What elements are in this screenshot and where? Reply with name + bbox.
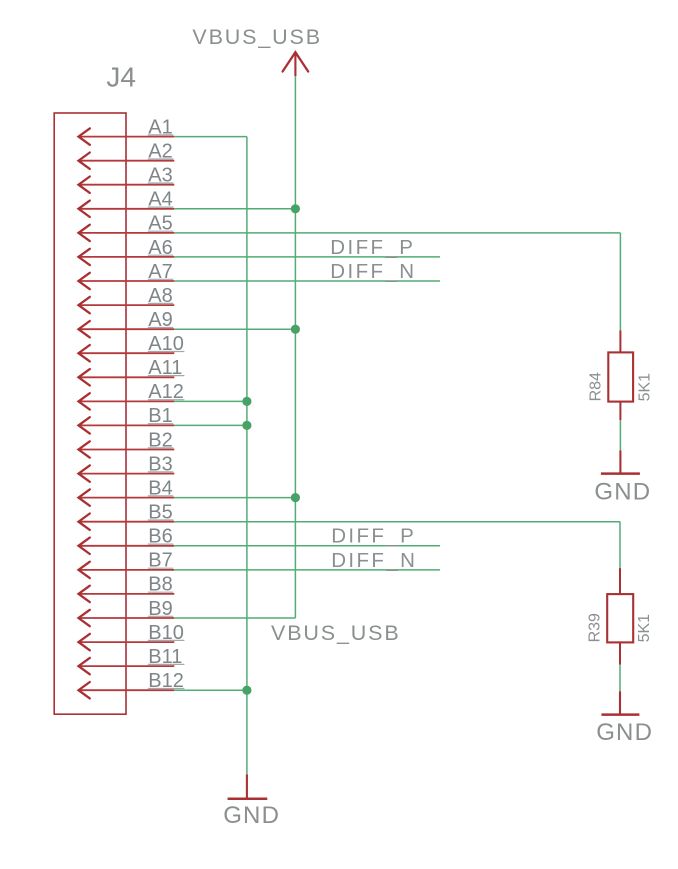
wire R84 to GND <box>619 420 621 450</box>
pin A6 arrowhead <box>79 249 90 265</box>
pin B2 arrowhead <box>79 441 90 457</box>
pin B2 line <box>79 449 175 451</box>
pin B8 line <box>79 593 175 595</box>
svg-text:GND: GND <box>594 479 651 506</box>
ground symbol GND3 stub <box>246 774 248 798</box>
pin A10 line <box>79 352 175 354</box>
pin A2 label underline <box>148 158 174 160</box>
pin A7 line <box>79 280 175 282</box>
wire net from pin A1 <box>174 136 247 138</box>
pin A9 arrowhead <box>79 321 90 337</box>
wire net from pin A12 <box>174 400 247 402</box>
pin A3 line <box>79 184 175 186</box>
pin A1 line <box>79 136 175 138</box>
pin B11 arrowhead <box>79 658 90 674</box>
wire CC1 net vertical to R84 <box>619 233 621 331</box>
pin A1 label underline <box>148 134 174 136</box>
wire VBUS vertical net (x=295) <box>294 76 296 618</box>
pin A9 line <box>79 328 175 330</box>
pin B7 arrowhead <box>79 562 90 578</box>
pin A11 label underline <box>148 375 185 377</box>
pin B10 label underline <box>148 639 185 641</box>
resistor R39 bottom pin stub <box>619 642 621 664</box>
junction VBUS/A9 <box>291 325 300 334</box>
wire GND vertical net (x=247) <box>246 137 248 775</box>
wire net from pin B5 <box>174 521 620 523</box>
pin A1 arrowhead <box>79 128 90 144</box>
pin B11 line <box>79 665 175 667</box>
pin A8 line <box>79 304 175 306</box>
VBUS supply arrow symbol <box>283 52 309 71</box>
wire net from pin B9 <box>174 617 295 619</box>
pin A3 arrowhead <box>79 177 90 193</box>
pin B4 line <box>79 497 175 499</box>
pin A12 arrowhead <box>79 393 90 409</box>
pin B6 line <box>79 545 175 547</box>
svg-text:DIFF_P: DIFF_P <box>330 236 415 259</box>
pin A7 arrowhead <box>79 273 90 289</box>
pin B4 label underline <box>148 495 174 497</box>
pin A12 label underline <box>148 399 185 401</box>
pin B3 arrowhead <box>79 465 90 481</box>
svg-text:DIFF_N: DIFF_N <box>330 260 416 283</box>
wire net from pin A7 <box>174 280 440 282</box>
pin B7 line <box>79 569 175 571</box>
pin A6 line <box>79 256 175 258</box>
pin B5 arrowhead <box>79 514 90 530</box>
pin B11 label underline <box>148 663 185 665</box>
pin B5 line <box>79 521 175 523</box>
svg-text:J4: J4 <box>106 62 136 93</box>
pin A8 arrowhead <box>79 297 90 313</box>
junction VBUS/B4 <box>291 493 300 502</box>
pin B12 arrowhead <box>79 682 90 698</box>
wire net from pin B6 <box>174 545 440 547</box>
pin B3 label underline <box>148 471 174 473</box>
svg-text:VBUS_USB: VBUS_USB <box>271 621 401 645</box>
wire net from pin A4 <box>174 208 295 210</box>
VBUS arrow stem (red pin stub) <box>294 53 296 76</box>
svg-text:DIFF_P: DIFF_P <box>331 525 416 548</box>
pin B12 label underline <box>148 688 185 690</box>
svg-text:VBUS_USB: VBUS_USB <box>192 25 322 49</box>
pin A4 label underline <box>148 206 174 208</box>
pin B9 arrowhead <box>79 610 90 626</box>
pin B7 label underline <box>148 567 174 569</box>
pin A5 arrowhead <box>79 225 90 241</box>
junction GND/B12 <box>242 686 251 695</box>
pin A10 label underline <box>148 351 185 353</box>
pin B10 line <box>79 641 175 643</box>
pin B6 label underline <box>148 543 174 545</box>
pin B8 arrowhead <box>79 586 90 602</box>
wire net from pin B1 <box>174 424 247 426</box>
pin A11 line <box>79 376 175 378</box>
pin B3 line <box>79 473 175 475</box>
wire CC2 net vertical to R39 <box>619 522 621 568</box>
resistor R84 body <box>608 352 633 401</box>
pin B4 arrowhead <box>79 489 90 505</box>
junction VBUS/A4 <box>291 204 300 213</box>
resistor R84 bottom pin stub <box>619 402 621 421</box>
pin B9 label underline <box>148 615 174 617</box>
connector J4 body outline <box>54 113 126 714</box>
ground symbol GND2 stub <box>619 691 621 714</box>
wire net from pin A9 <box>174 328 295 330</box>
pin A2 line <box>79 160 175 162</box>
wire net from pin B7 <box>174 569 440 571</box>
svg-text:5K1: 5K1 <box>636 373 653 402</box>
ground symbol GND2 bar <box>601 713 639 716</box>
svg-text:R39: R39 <box>587 613 604 642</box>
pin B8 label underline <box>148 591 174 593</box>
pin A10 arrowhead <box>79 345 90 361</box>
pin A3 label underline <box>148 182 174 184</box>
pin A9 label underline <box>148 327 174 329</box>
resistor R84 top pin stub <box>619 330 621 352</box>
pin B1 arrowhead <box>79 417 90 433</box>
pin B9 line <box>79 617 175 619</box>
svg-text:R84: R84 <box>588 372 605 401</box>
wire net from pin A5 <box>174 232 620 234</box>
pin B1 line <box>79 424 175 426</box>
svg-text:5K1: 5K1 <box>636 614 653 643</box>
pin A7 label underline <box>148 278 174 280</box>
ground symbol GND1 bar <box>601 472 640 475</box>
pin B12 line <box>79 689 175 691</box>
wire net from pin A6 <box>174 256 440 258</box>
ground symbol GND3 bar <box>228 798 268 801</box>
pin A5 line <box>79 232 175 234</box>
pin A11 arrowhead <box>79 369 90 385</box>
pin A4 arrowhead <box>79 201 90 217</box>
wire net from pin B12 <box>174 689 247 691</box>
resistor R39 top pin stub <box>619 568 621 594</box>
junction GND/A12 <box>242 397 251 406</box>
wire net from pin B4 <box>174 497 295 499</box>
pin A6 label underline <box>148 254 174 256</box>
pin A2 arrowhead <box>79 153 90 169</box>
pin B6 arrowhead <box>79 538 90 554</box>
svg-text:DIFF_N: DIFF_N <box>331 549 417 572</box>
pin B2 label underline <box>148 447 174 449</box>
pin A8 label underline <box>148 302 174 304</box>
svg-text:GND: GND <box>596 719 653 746</box>
pin B1 label underline <box>148 423 174 425</box>
svg-text:GND: GND <box>223 802 280 829</box>
junction GND/B1 <box>242 421 251 430</box>
wire R39 to GND <box>619 665 621 692</box>
pin A4 line <box>79 208 175 210</box>
pin A12 line <box>79 400 175 402</box>
pin A5 label underline <box>148 230 174 232</box>
pin B5 label underline <box>148 519 174 521</box>
ground symbol GND1 stub <box>619 450 621 473</box>
pin B10 arrowhead <box>79 634 90 650</box>
resistor R39 body <box>607 594 633 642</box>
